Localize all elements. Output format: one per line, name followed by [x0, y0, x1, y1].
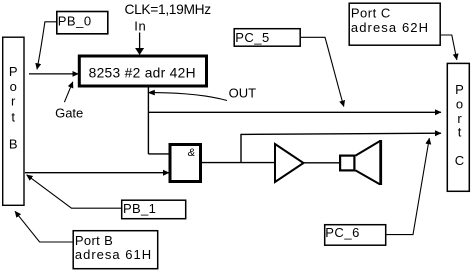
svg-text:PC_6: PC_6 [325, 225, 360, 240]
svg-text:adresa 61H: adresa 61H [75, 247, 152, 262]
svg-text:PC_5: PC_5 [235, 30, 270, 45]
svg-text:t: t [458, 125, 462, 140]
svg-text:&: & [188, 147, 195, 159]
svg-text:Gate: Gate [55, 106, 83, 121]
svg-text:t: t [11, 109, 15, 124]
svg-text:o: o [456, 97, 463, 112]
svg-text:o: o [10, 79, 17, 94]
svg-text:P: P [9, 64, 18, 79]
svg-text:Port B: Port B [75, 233, 113, 248]
svg-text:adresa 62H: adresa 62H [351, 20, 429, 35]
svg-text:In: In [134, 18, 146, 33]
svg-text:C: C [455, 153, 464, 168]
svg-text:Port C: Port C [351, 5, 391, 20]
svg-text:PB_0: PB_0 [58, 13, 92, 28]
svg-text:r: r [11, 94, 16, 109]
svg-text:B: B [9, 137, 18, 152]
svg-text:8253 #2 adr 42H: 8253 #2 adr 42H [89, 66, 196, 81]
svg-text:CLK=1,19MHz: CLK=1,19MHz [125, 2, 212, 17]
svg-text:OUT: OUT [229, 86, 257, 101]
svg-text:P: P [455, 82, 464, 97]
svg-text:PB_1: PB_1 [123, 201, 156, 216]
